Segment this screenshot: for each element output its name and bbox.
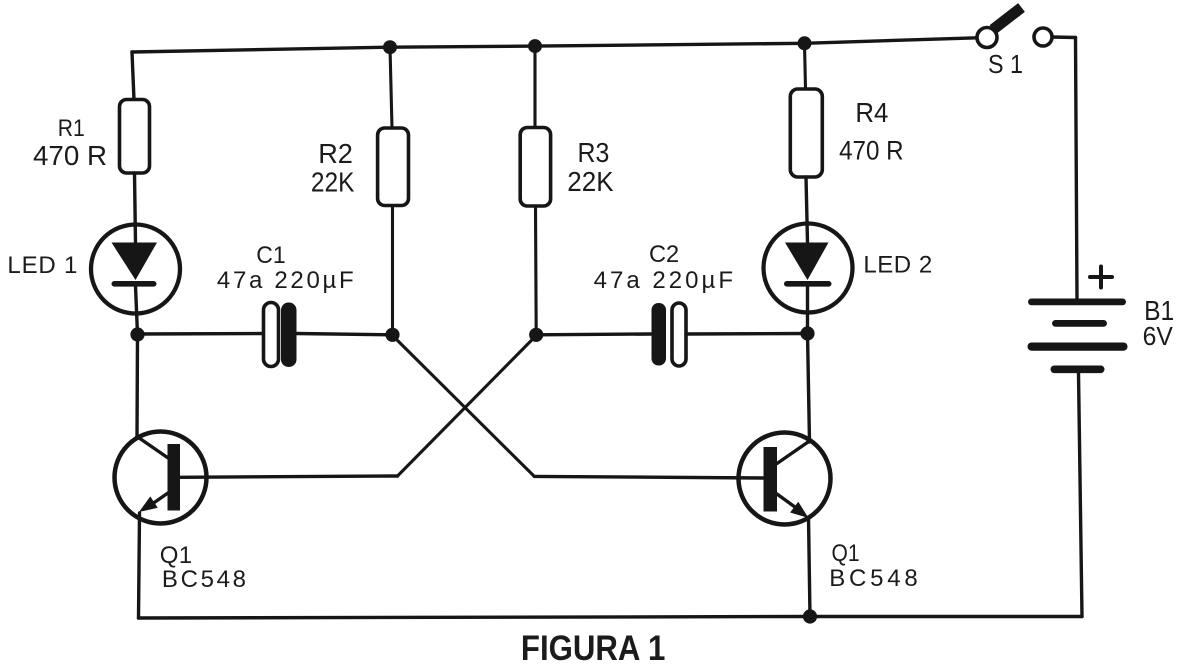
wire: C2 left lead: [536, 332, 651, 336]
svg-text:LED 2: LED 2: [863, 252, 932, 279]
svg-text:47a 220µF: 47a 220µF: [217, 267, 354, 294]
LED LED1: [91, 225, 180, 314]
wire: bottom return rail: [139, 617, 1083, 619]
svg-text:22K: 22K: [311, 167, 355, 198]
svg-text:LED 1: LED 1: [7, 252, 77, 279]
svg-text:Q1: Q1: [160, 542, 192, 569]
wire: Q2 emitter drop: [809, 518, 811, 617]
wire: node down to Q2 collector: [808, 334, 810, 443]
junction: bottom rail node at Q2 emitter: [803, 609, 817, 623]
wire: Q1 emitter drop: [139, 513, 140, 618]
junction: node LED2/C2/Q2 collector: [800, 326, 814, 340]
svg-text:S 1: S 1: [988, 49, 1023, 79]
wire: LED1 to collector node: [136, 286, 138, 335]
transistor Q1 (left, BC548): [115, 432, 207, 524]
svg-text:FIGURA 1: FIGURA 1: [521, 629, 665, 668]
svg-text:6V: 6V: [1143, 321, 1174, 351]
wire: Q2 base horizontal: [534, 476, 763, 478]
svg-text:Q1: Q1: [832, 540, 860, 567]
svg-text:R3: R3: [578, 137, 610, 168]
wire: node down to Q1 collector: [135, 335, 139, 438]
svg-text:C2: C2: [649, 241, 679, 268]
junction: R2 bottom node: [385, 328, 399, 342]
wire: cross coupling R2 node to Q2 base (down-right diagonal): [393, 336, 535, 477]
svg-text:C1: C1: [256, 242, 285, 269]
resistor R3: [520, 128, 550, 207]
wire: switch to top-right corner: [1052, 35, 1076, 39]
svg-text:47a 220µF: 47a 220µF: [594, 267, 733, 294]
label battery + polarity: [1090, 267, 1112, 288]
svg-text:470 R: 470 R: [33, 140, 107, 171]
wire: C2 right lead: [686, 332, 808, 336]
capacitor C1: [264, 303, 297, 368]
capacitor C2: [652, 303, 687, 366]
LED LED2: [764, 224, 853, 313]
wire: Q1 base horizontal: [180, 476, 398, 477]
svg-text:R2: R2: [318, 138, 353, 169]
junction: R4 top node: [798, 36, 812, 50]
battery B1: [1028, 299, 1128, 374]
wire: C1 right lead: [297, 334, 393, 335]
wire: R4 to LED2: [806, 177, 808, 243]
wire: R2 top lead: [390, 47, 392, 128]
wire: cross coupling R3 node to Q1 base (down-left diagonal): [398, 336, 537, 477]
svg-text:BC548: BC548: [162, 566, 246, 593]
junction: R3 top node: [528, 39, 542, 53]
wire: battery - down to bottom-right corner: [1079, 373, 1083, 617]
junction: node LED1/C1/Q1 collector: [130, 327, 144, 341]
wire: top-left corner drop to R1: [132, 52, 134, 100]
wire: R1 to LED1: [135, 173, 136, 243]
svg-text:22K: 22K: [567, 166, 614, 197]
svg-text:R4: R4: [855, 97, 888, 128]
junction: R2 top node: [383, 40, 397, 54]
wire: R3 bottom lead: [534, 206, 538, 335]
svg-text:R1: R1: [58, 115, 85, 142]
wire: R4 top lead: [805, 43, 806, 89]
wire: R3 top lead: [533, 46, 536, 128]
wire: LED2 to collector node: [806, 286, 809, 334]
svg-text:BC548: BC548: [829, 565, 917, 592]
wire: right rail down to battery +: [1076, 38, 1078, 300]
resistor R4: [790, 89, 822, 177]
wire: C1 left lead: [138, 332, 264, 336]
transistor Q2 (right, BC548): [739, 433, 831, 525]
wire: top supply rail: [132, 38, 977, 52]
svg-text:470 R: 470 R: [839, 136, 904, 166]
resistor R1: [120, 100, 150, 174]
wire: R2 bottom lead: [391, 206, 394, 335]
switch S1: [977, 8, 1052, 48]
resistor R2: [378, 128, 409, 206]
junction: R3 bottom node: [529, 328, 543, 342]
